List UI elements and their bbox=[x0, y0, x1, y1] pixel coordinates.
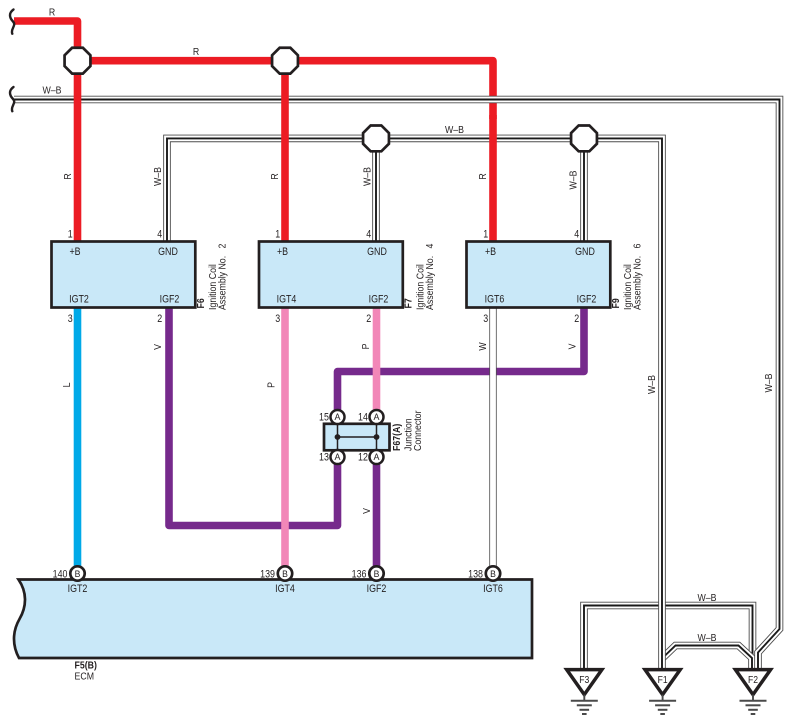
svg-text:4: 4 bbox=[574, 229, 579, 241]
wire W-B drop to F9 GND bbox=[580, 138, 588, 243]
svg-text:3: 3 bbox=[275, 313, 280, 325]
svg-text:139: 139 bbox=[260, 568, 275, 580]
label P wire F7 IGT4 bbox=[266, 382, 278, 388]
label R wire F9 bbox=[478, 173, 490, 179]
label W-B row2 bbox=[445, 125, 464, 137]
svg-text:F3: F3 bbox=[579, 674, 589, 686]
svg-text:R: R bbox=[63, 173, 75, 179]
svg-text:R: R bbox=[270, 173, 282, 179]
svg-text:IGT6: IGT6 bbox=[483, 583, 503, 595]
label R top feed bbox=[49, 7, 55, 19]
label P wire junction pin14 bbox=[361, 344, 373, 350]
label V wire F9 IGF2 bbox=[567, 343, 579, 349]
svg-text:IGF2: IGF2 bbox=[369, 293, 389, 305]
svg-text:Assembly No. 6: Assembly No. 6 bbox=[632, 244, 644, 310]
label R wire F7 bbox=[270, 173, 282, 179]
svg-text:4: 4 bbox=[366, 229, 371, 241]
svg-text:F9: F9 bbox=[611, 298, 623, 308]
svg-text:B: B bbox=[75, 569, 81, 579]
svg-text:GND: GND bbox=[158, 246, 178, 258]
wire W-B bottom F3 to F2 bbox=[584, 606, 753, 670]
ground F1 bbox=[645, 670, 680, 714]
svg-text:IGF2: IGF2 bbox=[577, 293, 597, 305]
svg-text:W: W bbox=[478, 342, 490, 350]
wire V from F9 IGF2 to junction pin 15 bbox=[338, 306, 585, 412]
svg-text:W–B: W–B bbox=[647, 375, 659, 394]
svg-text:W–B: W–B bbox=[697, 592, 716, 604]
svg-text:1: 1 bbox=[483, 229, 488, 241]
wire R top feed from left bbox=[14, 21, 78, 61]
ground F2 bbox=[735, 670, 770, 714]
junction pin 15 bbox=[331, 410, 345, 424]
svg-text:F1: F1 bbox=[658, 674, 668, 686]
wire W-B row1 from left, right edge, down to ground F2 bbox=[14, 100, 780, 670]
junction pin 14 bbox=[370, 410, 384, 424]
svg-text:R: R bbox=[193, 46, 199, 58]
svg-text:P: P bbox=[266, 382, 278, 388]
label W wire bbox=[478, 342, 490, 350]
svg-text:A: A bbox=[374, 412, 381, 422]
svg-text:Assembly No. 4: Assembly No. 4 bbox=[425, 244, 437, 310]
label W-B wire F7 GND bbox=[362, 167, 374, 186]
ignition coil assembly F9 box bbox=[467, 229, 644, 326]
svg-text:L: L bbox=[62, 383, 74, 388]
svg-text:P: P bbox=[361, 344, 373, 350]
svg-text:1: 1 bbox=[275, 229, 280, 241]
svg-text:138: 138 bbox=[468, 568, 483, 580]
svg-text:R: R bbox=[49, 7, 55, 19]
svg-text:140: 140 bbox=[53, 568, 68, 580]
label W-B wire far right bbox=[764, 373, 776, 392]
svg-text:W–B: W–B bbox=[362, 167, 374, 186]
ECM F5(B) box bbox=[14, 566, 532, 682]
svg-text:A: A bbox=[374, 452, 381, 462]
svg-text:13: 13 bbox=[319, 452, 329, 464]
svg-text:14: 14 bbox=[358, 412, 368, 424]
wire P from F7 IGF2 to junction pin 14 bbox=[373, 306, 381, 412]
svg-text:12: 12 bbox=[358, 452, 368, 464]
svg-text:W–B: W–B bbox=[568, 170, 580, 189]
svg-text:+B: +B bbox=[69, 246, 80, 258]
svg-text:4: 4 bbox=[157, 229, 162, 241]
svg-text:GND: GND bbox=[575, 246, 595, 258]
svg-text:IGT4: IGT4 bbox=[277, 293, 297, 305]
svg-text:V: V bbox=[153, 343, 165, 349]
svg-text:IGT2: IGT2 bbox=[69, 293, 89, 305]
svg-text:W–B: W–B bbox=[153, 167, 165, 186]
svg-text:W–B: W–B bbox=[764, 373, 776, 392]
svg-text:2: 2 bbox=[366, 313, 371, 325]
junction pin 12 bbox=[370, 450, 384, 464]
svg-text:2: 2 bbox=[157, 313, 162, 325]
wire break squiggle R feed bbox=[10, 10, 14, 34]
ignition coil assembly F6 box bbox=[52, 229, 229, 326]
svg-text:W–B: W–B bbox=[445, 125, 464, 137]
wire R bus row to F9 +B upper part (under W-B row1) bbox=[78, 61, 494, 119]
label V wire junction pin12 bbox=[362, 507, 374, 513]
svg-text:3: 3 bbox=[68, 313, 73, 325]
label W-B bottom wire F3-F2 bbox=[697, 592, 716, 604]
svg-text:1: 1 bbox=[68, 229, 73, 241]
label W-B wire F6 GND bbox=[153, 167, 165, 186]
label R row1 bbox=[193, 46, 199, 58]
label W-B wire right F1 bbox=[647, 375, 659, 394]
wire V from junction pin 12 to ECM IGF2 bbox=[373, 462, 381, 567]
svg-text:A: A bbox=[335, 412, 342, 422]
svg-text:A: A bbox=[335, 452, 342, 462]
junction pin 13 bbox=[331, 450, 345, 464]
svg-text:F67(A): F67(A) bbox=[392, 424, 404, 451]
svg-text:B: B bbox=[490, 569, 496, 579]
wire W-B link F1 to F2 bbox=[662, 646, 752, 670]
wire R drop to F6 +B bbox=[74, 61, 82, 243]
svg-text:136: 136 bbox=[352, 568, 367, 580]
svg-text:R: R bbox=[478, 173, 490, 179]
svg-text:ECM: ECM bbox=[75, 671, 95, 683]
svg-text:IGF2: IGF2 bbox=[367, 583, 387, 595]
label W-B wire F9 GND bbox=[568, 170, 580, 189]
wire break squiggle W-B row1 bbox=[10, 87, 14, 111]
svg-text:Assembly No. 2: Assembly No. 2 bbox=[217, 244, 229, 310]
ECM pin 140 IGT2 bbox=[70, 566, 84, 580]
wire W-B row2 from F6 GND across and down to ground F1 bbox=[167, 138, 662, 669]
svg-text:IGT2: IGT2 bbox=[68, 583, 88, 595]
svg-text:W–B: W–B bbox=[42, 85, 61, 97]
svg-text:F2: F2 bbox=[748, 674, 758, 686]
node octagon W-B row2 at F7 bbox=[363, 125, 389, 151]
ignition coil assembly F7 box bbox=[259, 229, 436, 326]
node octagon R row1 mid bbox=[272, 48, 298, 74]
svg-text:B: B bbox=[374, 569, 380, 579]
svg-text:+B: +B bbox=[485, 246, 496, 258]
wire V from F6 IGF2 to junction pin 13 bbox=[169, 306, 338, 526]
svg-text:2: 2 bbox=[574, 313, 579, 325]
svg-text:V: V bbox=[362, 507, 374, 513]
svg-text:+B: +B bbox=[277, 246, 288, 258]
wire R drop to F9 +B lower part (over W-B row2) bbox=[489, 115, 497, 243]
ground F3 bbox=[567, 670, 602, 714]
svg-text:V: V bbox=[567, 343, 579, 349]
svg-text:IGT6: IGT6 bbox=[485, 293, 505, 305]
ECM pin 138 IGT6 bbox=[486, 566, 500, 580]
svg-text:F6: F6 bbox=[196, 298, 208, 308]
wire P from F7 IGT4 to ECM IGT4 bbox=[281, 306, 289, 567]
label W-B bottom wire F1-F2 bbox=[697, 632, 716, 644]
svg-text:3: 3 bbox=[483, 313, 488, 325]
svg-text:15: 15 bbox=[319, 412, 329, 424]
node octagon R row1 left bbox=[65, 48, 91, 74]
wire W from F9 IGT6 to ECM IGT6 bbox=[489, 306, 496, 567]
svg-text:W–B: W–B bbox=[697, 632, 716, 644]
junction connector F67(A) bbox=[319, 410, 424, 464]
label W-B row1 bbox=[42, 85, 61, 97]
wire L from F6 IGT2 to ECM IGT2 bbox=[74, 306, 82, 567]
svg-text:Connector: Connector bbox=[413, 411, 425, 451]
wire R drop to F7 +B bbox=[281, 61, 289, 243]
node octagon W-B row2 at F9 bbox=[571, 125, 597, 151]
label L wire bbox=[62, 383, 74, 388]
ECM pin 136 IGF2 bbox=[369, 566, 383, 580]
svg-text:IGF2: IGF2 bbox=[160, 293, 180, 305]
label R wire F6 bbox=[63, 173, 75, 179]
svg-text:F7: F7 bbox=[403, 298, 415, 308]
svg-text:IGT4: IGT4 bbox=[275, 583, 295, 595]
label V wire F6 IGF2 bbox=[153, 343, 165, 349]
ECM pin 139 IGT4 bbox=[278, 566, 292, 580]
svg-text:GND: GND bbox=[367, 246, 387, 258]
wire W-B drop to F7 GND bbox=[372, 138, 380, 243]
svg-text:B: B bbox=[282, 569, 288, 579]
